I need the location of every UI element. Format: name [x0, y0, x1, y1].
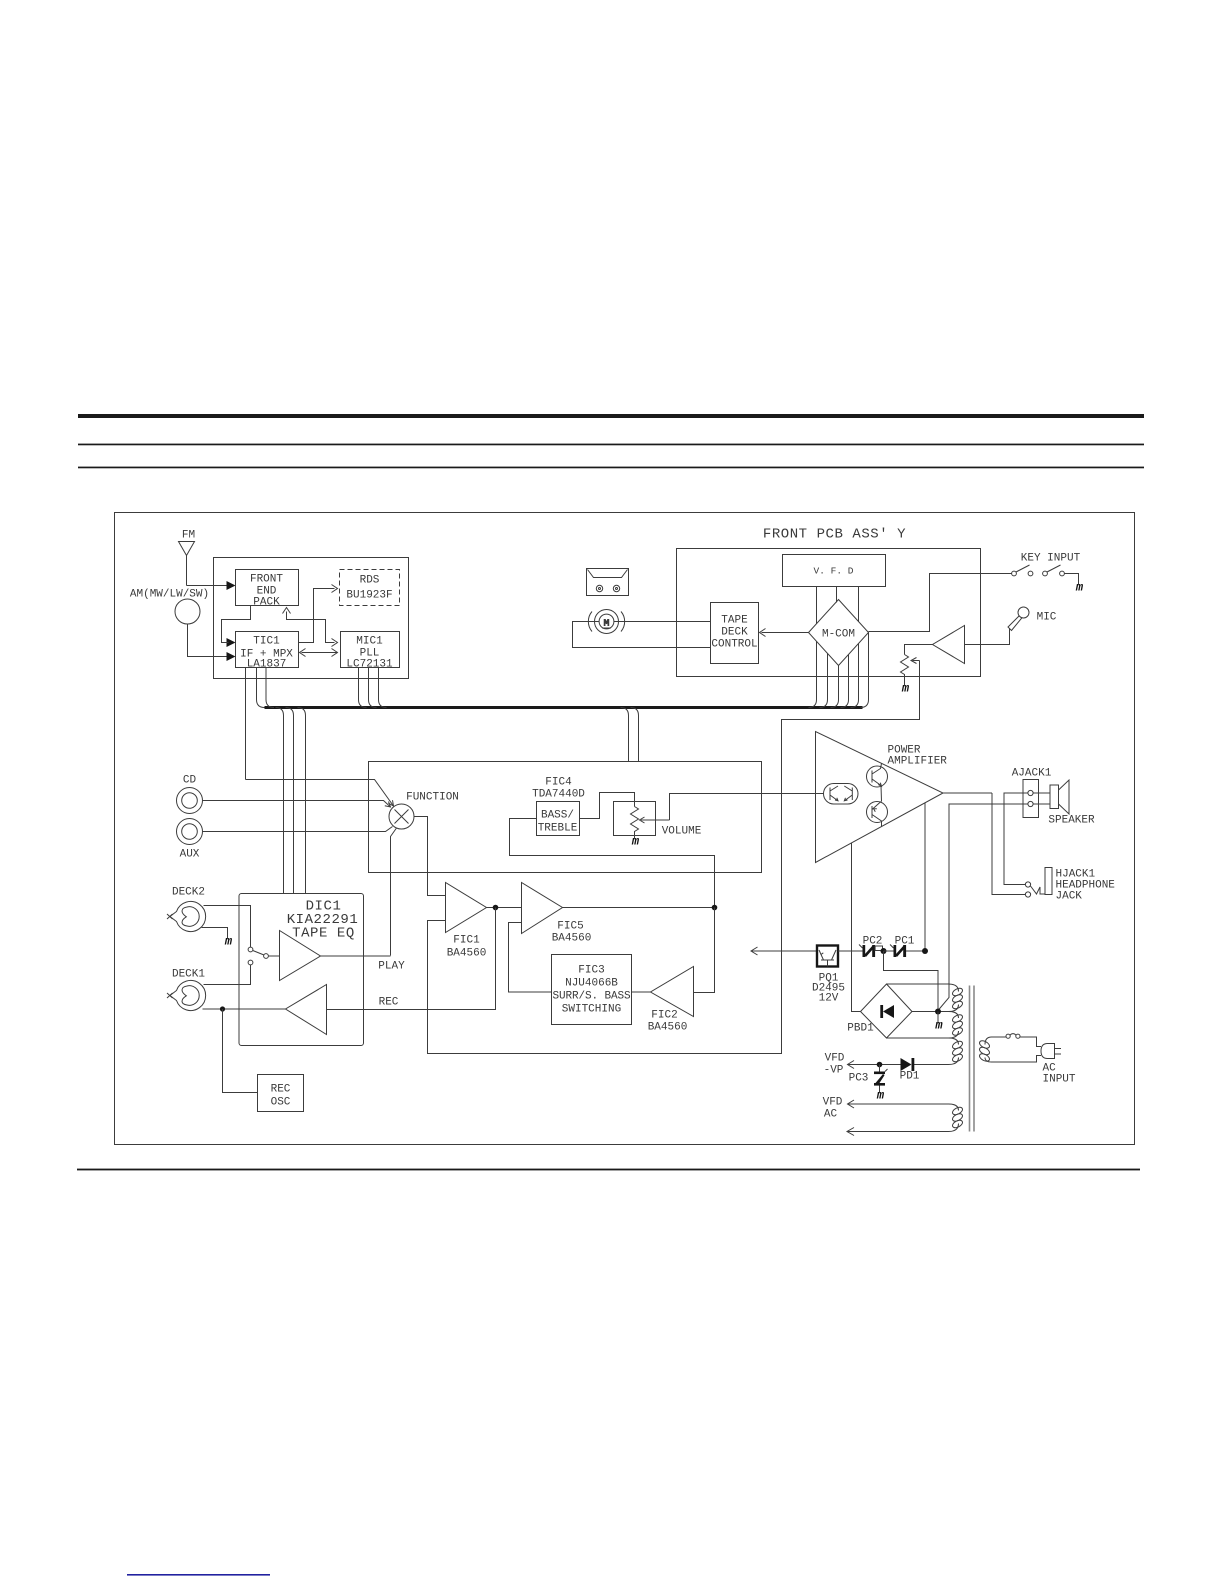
svg-text:PBD1: PBD1 — [847, 1023, 874, 1035]
wire VFD to M-COM 2 — [836, 587, 838, 603]
wire amp output — [943, 792, 992, 794]
wire FM to front end pack — [187, 585, 229, 587]
svg-text:TREBLE: TREBLE — [538, 823, 578, 835]
wire DECK1 rec line — [203, 1008, 286, 1010]
svg-text:BU1923F: BU1923F — [346, 590, 392, 602]
tuner block outline — [214, 558, 409, 679]
wire DECK1 to play switch — [204, 965, 251, 985]
mic amplifier triangle — [933, 626, 965, 664]
block DIC1 KIA22291 TAPE EQ — [239, 894, 364, 1046]
svg-text:MIC1: MIC1 — [356, 636, 383, 648]
svg-text:m: m — [224, 935, 233, 949]
block FRONT END PACK — [236, 570, 299, 606]
svg-text:AM(MW/LW/SW): AM(MW/LW/SW) — [130, 589, 209, 601]
solid arrow AM into TIC1 — [227, 652, 236, 661]
wire function output to FIC1 — [414, 817, 446, 896]
wire amp out down to headphone tip — [992, 793, 1026, 895]
junction FIC1 output — [493, 905, 499, 911]
svg-text:TIC1: TIC1 — [253, 636, 280, 648]
svg-text:BA4560: BA4560 — [648, 1022, 688, 1034]
mic level resistor — [901, 655, 909, 686]
MIC1 pin 3 curve into bus — [379, 668, 387, 708]
bus riser 6 to M-COM — [861, 633, 869, 708]
wire FEP bottom to TIC1 input — [222, 606, 251, 643]
svg-text:-VP: -VP — [824, 1065, 844, 1077]
rec amplifier triangle — [286, 985, 327, 1035]
bus drop to audio box left — [621, 708, 629, 762]
bus drop 3 to DIC1 — [298, 708, 306, 894]
svg-text:BA4560: BA4560 — [552, 933, 592, 945]
block MIC1 PLL LC72131 — [341, 632, 400, 668]
svg-text:FIC3: FIC3 — [578, 965, 604, 977]
antenna FM — [179, 542, 195, 586]
jack AUX — [177, 819, 203, 845]
svg-text:m: m — [901, 682, 910, 696]
wire VFD to M-COM 1 — [816, 587, 818, 624]
wire PC2 junction down to ground node — [884, 951, 939, 1011]
svg-text:TAPE EQ: TAPE EQ — [292, 926, 355, 942]
MIC1 pin 1 curve into bus — [359, 668, 367, 708]
wire headphone switch contact to AJACK1 — [1004, 793, 1028, 885]
headphone switch contact — [1025, 882, 1030, 887]
svg-text:PACK: PACK — [253, 597, 280, 609]
microphone icon — [1008, 607, 1029, 631]
pot wiper arrow — [911, 658, 920, 664]
svg-text:AUX: AUX — [180, 849, 200, 861]
headphone spring contact — [1031, 886, 1046, 894]
MIC1 pin 2 curve into bus — [369, 668, 377, 708]
key switch 1 blade — [1016, 565, 1030, 572]
wire play amp out to function riser — [321, 955, 391, 957]
play amplifier triangle — [280, 931, 321, 981]
junction center tap ground — [935, 1009, 941, 1015]
wire junction to REC OSC — [223, 1009, 258, 1093]
svg-text:FRONT PCB ASS' Y: FRONT PCB ASS' Y — [763, 527, 906, 543]
play select switch common — [264, 954, 269, 959]
wire junction down to FIC2 input — [694, 908, 715, 993]
transformer secondary winding section B — [949, 1012, 964, 1039]
wire key input to ground — [1065, 574, 1079, 585]
wire PC1 to junction — [906, 950, 925, 952]
key switch 2 blade — [1047, 565, 1061, 572]
svg-text:VFD: VFD — [823, 1097, 843, 1109]
svg-text:PLAY: PLAY — [378, 961, 405, 973]
headphone tip contact — [1025, 892, 1030, 897]
op-amp FIC5 triangle — [522, 883, 563, 934]
bridge rectifier PBD1 — [861, 984, 913, 1038]
wire VFD to M-COM 3 — [858, 587, 860, 622]
open arrow VFD AC top — [848, 1100, 855, 1108]
wire PBD1 top to transformer tap1 — [887, 983, 949, 985]
wire AM to TIC1 — [188, 624, 229, 657]
wire AJACK1 return to ground — [938, 804, 1028, 1011]
jack CD — [177, 788, 203, 814]
svg-text:m: m — [934, 1019, 943, 1033]
open arrow B+ — [751, 947, 758, 955]
power amplifier triangle — [816, 732, 944, 863]
open arrow into tape deck control — [760, 629, 766, 637]
solid arrow into FRONT END PACK — [227, 581, 236, 590]
svg-text:PD1: PD1 — [900, 1071, 920, 1083]
svg-text:FIC4: FIC4 — [545, 777, 572, 789]
wire PLAY into function — [391, 828, 397, 956]
page rules top — [78, 414, 1144, 418]
svg-text:KEY INPUT: KEY INPUT — [1021, 553, 1081, 565]
transformer core — [970, 986, 975, 1132]
bus riser 5 to M-COM — [851, 644, 859, 708]
svg-text:OSC: OSC — [271, 1097, 291, 1109]
open arrow right end — [332, 649, 338, 657]
speaker relay jack AJACK1 — [1023, 780, 1039, 818]
junction PC3 — [877, 1062, 883, 1068]
svg-text:DECK: DECK — [721, 627, 748, 639]
wire AUX into function — [203, 827, 393, 832]
wire B+ arrow to PQ1 — [752, 950, 817, 952]
function selector circle — [389, 804, 414, 829]
wire common to play amp — [269, 955, 280, 957]
wire TIC1 to RDS — [299, 589, 335, 643]
svg-text:REC: REC — [379, 997, 399, 1009]
open arrow into RDS — [332, 585, 338, 593]
bus drop 1 to DIC1 — [276, 708, 284, 894]
block TAPE DECK CONTROL — [711, 603, 759, 664]
play select blade — [253, 951, 264, 956]
svg-text:BA4560: BA4560 — [447, 948, 487, 960]
svg-text:REC: REC — [271, 1084, 291, 1096]
solid arrow FEP feedback into TIC1 — [227, 638, 236, 647]
audio section box — [369, 762, 762, 873]
regulator PQ1 box — [817, 946, 838, 967]
svg-text:m: m — [631, 835, 640, 849]
svg-text:BASS/: BASS/ — [541, 810, 574, 822]
svg-text:INPUT: INPUT — [1043, 1074, 1076, 1086]
junction PC2/PC1 — [881, 948, 887, 954]
svg-text:VOLUME: VOLUME — [662, 826, 702, 838]
svg-text:AJACK1: AJACK1 — [1012, 768, 1052, 780]
bus drop to audio box right — [631, 708, 639, 762]
wire junction to ground — [937, 1012, 939, 1023]
svg-text:LC72131: LC72131 — [346, 659, 393, 671]
svg-text:12V: 12V — [819, 993, 839, 1005]
wire tape deck control to mechanism loop — [573, 622, 711, 648]
transistor Q upper in amp — [867, 764, 888, 802]
block TIC1 IF+MPX LA1837 — [236, 632, 299, 668]
bus riser 3 to M-COM — [831, 666, 839, 708]
page rule bottom — [77, 1169, 1140, 1171]
PBD1 diode — [880, 1005, 894, 1018]
wire wiper long route to FIC1 (down and around) — [428, 661, 920, 1054]
transformer heater winding — [848, 1104, 964, 1132]
AC plug icon — [1041, 1044, 1061, 1059]
transistor Q lower in amp — [867, 802, 888, 827]
wire amp lead to PC1 junction — [924, 803, 926, 951]
wire PQ1 to PC2 — [838, 950, 863, 952]
wire mic to amplifier — [965, 629, 1010, 645]
diode PD1 — [901, 1058, 915, 1071]
junction DECK1 rec — [220, 1006, 225, 1011]
bus riser 4 to M-COM — [841, 655, 849, 708]
svg-text:MIC: MIC — [1037, 612, 1057, 624]
volume box — [614, 802, 656, 836]
AJACK1 contact 2 — [1028, 801, 1033, 806]
svg-text:M-COM: M-COM — [822, 629, 855, 641]
wire VFD-VP line — [848, 1064, 949, 1066]
svg-text:RDS: RDS — [360, 575, 380, 587]
svg-text:FIC2: FIC2 — [651, 1010, 677, 1022]
TIC1 pin 3 curve into bus — [266, 668, 274, 708]
play select switch contact upper — [248, 947, 253, 952]
play select switch contact lower — [248, 960, 253, 965]
svg-text:TAPE: TAPE — [721, 615, 748, 627]
op-amp FIC2 triangle — [651, 967, 694, 1017]
junction PC1 right — [922, 948, 928, 954]
wire volume to power amplifier — [670, 794, 824, 821]
microcontroller M-COM diamond — [809, 600, 869, 666]
svg-text:AMPLIFIER: AMPLIFIER — [888, 756, 948, 768]
svg-text:TDA7440D: TDA7440D — [532, 789, 585, 801]
bus main thick line — [265, 706, 863, 709]
junction FIC5 output — [712, 905, 718, 911]
svg-text:AC: AC — [824, 1109, 838, 1121]
wire FIC5 output loop into BASS/TREBLE — [510, 819, 715, 908]
svg-text:FIC1: FIC1 — [453, 935, 480, 947]
wire FIC5 out to junction — [563, 907, 715, 909]
bus drop 2 to DIC1 — [286, 708, 294, 894]
wire PBD1 bottom to tap3 — [887, 1037, 949, 1039]
key switch 2 contact a — [1043, 571, 1048, 576]
transistor pair stadium — [824, 784, 859, 805]
photocoupler diode PC2 — [859, 945, 883, 958]
cassette mechanism icon — [587, 569, 629, 596]
block V.F.D — [783, 555, 886, 587]
open arrow into MIC1 — [332, 639, 338, 647]
wire AJACK1 to speaker — [1033, 793, 1050, 804]
svg-text:CONTROL: CONTROL — [711, 639, 757, 651]
wire PLL tuning loop to FEP and MIC1 — [287, 612, 335, 643]
wire tuner into function (from bus drop) — [246, 780, 394, 807]
volume resistor — [631, 807, 639, 839]
primary circuit loop with fuse — [985, 1034, 1041, 1062]
footer blue link underline — [127, 1574, 270, 1576]
wire BASS/TREBLE to volume — [580, 793, 635, 819]
open arrow left end — [300, 649, 306, 657]
svg-text:VFD: VFD — [825, 1053, 845, 1065]
key switch 1 contact a — [1012, 571, 1017, 576]
svg-text:SURR/S. BASS: SURR/S. BASS — [552, 991, 631, 1003]
diagram outer border — [115, 513, 1135, 1145]
op-amp FIC1 triangle — [446, 883, 487, 933]
wire PBD1 right to center tap — [912, 1011, 949, 1013]
svg-text:SPEAKER: SPEAKER — [1048, 815, 1095, 827]
block FIC3 NJU4066B — [552, 955, 632, 1025]
wire FIC1 out to FIC5 — [487, 907, 522, 909]
volume wiper arrow — [640, 817, 670, 823]
wire TIC1 to MIC1 double arrow — [302, 652, 338, 654]
arrow tuner into function — [388, 800, 393, 806]
svg-text:M: M — [604, 618, 610, 629]
speaker icon — [1050, 780, 1069, 814]
svg-text:FRONT: FRONT — [250, 574, 283, 586]
wire DECK2 to ground — [202, 928, 228, 939]
AJACK1 contact 1 — [1028, 790, 1033, 795]
transformer secondary winding section C — [949, 1038, 964, 1065]
svg-text:DECK2: DECK2 — [172, 887, 205, 899]
svg-text:V. F. D: V. F. D — [814, 566, 854, 577]
wire FIC1 out down to REC line — [327, 908, 496, 1010]
open arrow VFD AC bottom — [847, 1128, 854, 1136]
svg-text:JACK: JACK — [1056, 891, 1083, 903]
svg-text:PC3: PC3 — [849, 1073, 869, 1085]
wire M-COM to tape deck control — [762, 632, 809, 634]
zener PC3 — [874, 1065, 888, 1093]
arrow CD into function — [385, 802, 391, 808]
PQ1 transistor symbol — [819, 950, 836, 967]
svg-text:m: m — [1075, 581, 1084, 595]
svg-text:FUNCTION: FUNCTION — [406, 792, 459, 804]
key switch 2 contact b — [1060, 571, 1065, 576]
front pcb box — [677, 549, 981, 677]
key switch 1 contact b — [1028, 571, 1033, 576]
transformer primary winding — [978, 1039, 990, 1063]
open arrow up into FEP — [283, 608, 291, 614]
svg-text:m: m — [876, 1089, 885, 1103]
wire FIC3 out loop to FIC5 lower input — [509, 923, 552, 993]
open arrow VFD-VP — [848, 1061, 855, 1069]
svg-text:SWITCHING: SWITCHING — [562, 1004, 621, 1016]
jack DECK1 head — [167, 981, 206, 1011]
jack DECK2 head — [167, 902, 206, 932]
TIC1 pin 1 wire down to function feed — [245, 668, 247, 780]
block REC OSC — [258, 1075, 304, 1112]
svg-text:NJU4066B: NJU4066B — [565, 978, 618, 990]
svg-text:DECK1: DECK1 — [172, 969, 205, 981]
svg-text:FIC5: FIC5 — [557, 921, 583, 933]
antenna AM loop — [175, 599, 200, 624]
photocoupler diode PC1 — [890, 945, 906, 958]
wire key input line from M-COM — [869, 574, 1012, 632]
wire junction to PC1 — [884, 950, 894, 952]
svg-text:CD: CD — [183, 775, 197, 787]
TIC1 pin 2 curve into bus — [257, 668, 265, 708]
wire FIC2 out to FIC3 — [632, 991, 651, 993]
wire DECK2 to play switch — [204, 906, 251, 948]
wire CD into function — [203, 801, 391, 808]
block RDS BU1923F (dashed) — [340, 570, 400, 606]
bus riser 2 to M-COM — [820, 654, 828, 708]
transformer secondary winding section A — [949, 984, 964, 1012]
block BASS/TREBLE — [537, 802, 580, 836]
headphone jack HJACK1 body — [1045, 868, 1052, 895]
motor M icon — [588, 610, 624, 634]
wire mic amp to level pot — [905, 645, 933, 655]
svg-text:FM: FM — [182, 530, 195, 542]
wire amp lead to PBD1 — [852, 843, 861, 1012]
bus riser 1 to M-COM — [809, 642, 817, 708]
